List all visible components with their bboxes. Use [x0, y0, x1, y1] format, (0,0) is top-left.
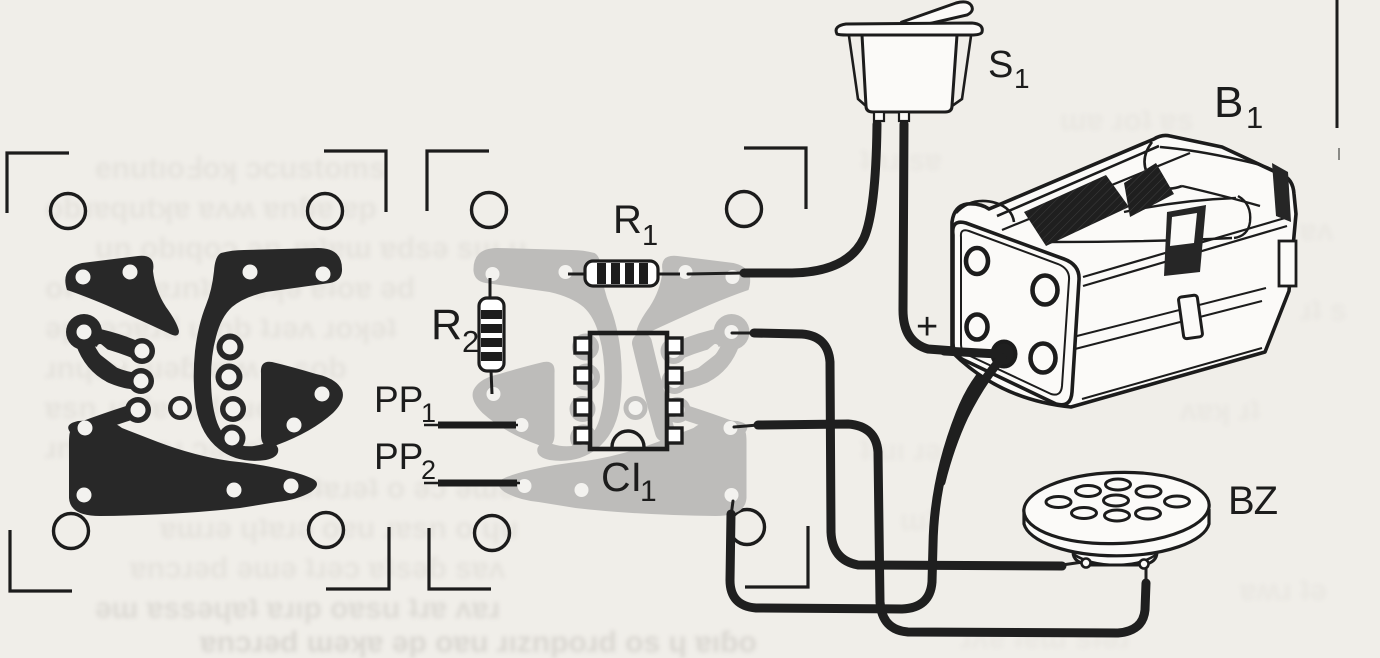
- svg-text:CI: CI: [601, 454, 642, 500]
- svg-text:1: 1: [421, 398, 436, 428]
- svg-text:ɹʌɐ ʇɐɯ sʇǝɹ: ɹʌɐ ʇɐɯ sʇǝɹ: [960, 622, 1130, 655]
- svg-text:ɐnɔɹǝd ɯǝʞɐ ǝp oɐu ɹıznpoɹd os: ɐnɔɹǝd ɯǝʞɐ ǝp oɐu ɹıznpoɹd os ɥ ɐıɓo: [199, 626, 757, 658]
- svg-text:ǝɯ ɐssǝɥɐʇ ɐɹıp oɐsu ʇɹɐ ʌɐɹ: ǝɯ ɐssǝɥɐʇ ɐɹıp oɐsu ʇɹɐ ʌɐɹ: [95, 592, 500, 625]
- svg-text:1: 1: [1014, 63, 1030, 94]
- svg-text:BZ: BZ: [1228, 479, 1278, 523]
- svg-text:PP: PP: [374, 379, 423, 420]
- svg-text:ɯɐ ɹoʇ ɐs: ɯɐ ɹoʇ ɐs: [1060, 104, 1193, 137]
- svg-text:B: B: [1214, 78, 1243, 127]
- svg-text:1: 1: [1246, 100, 1263, 135]
- svg-text:ɹʇ s: ɹʇ s: [1300, 294, 1347, 327]
- svg-text:ʌɐʞ ɹʇ: ʌɐʞ ɹʇ: [1180, 394, 1260, 427]
- svg-text:+: +: [916, 306, 938, 348]
- svg-text:1: 1: [640, 475, 657, 508]
- svg-text:1: 1: [642, 220, 658, 252]
- svg-text:ɐʍɹ ʇǝ: ɐʍɹ ʇǝ: [1239, 574, 1327, 607]
- svg-text:PP: PP: [374, 436, 423, 477]
- svg-text:S: S: [988, 44, 1013, 86]
- svg-text:enutıoℲoʞ ɔcustoms: enutıoℲoʞ ɔcustoms: [95, 152, 386, 185]
- svg-text:ɐnɔɹǝd ǝɯǝ ʇɹǝɔ ɐʇsǝɓ sɐʌ: ɐnɔɹǝd ǝɯǝ ʇɹǝɔ ɐʇsǝɓ sɐʌ: [129, 552, 506, 585]
- svg-text:R: R: [431, 301, 462, 349]
- svg-text:2: 2: [421, 455, 436, 485]
- svg-text:ɐʌ: ɐʌ: [1299, 214, 1334, 247]
- svg-text:2: 2: [462, 324, 479, 359]
- svg-text:obɹɐqutʞɐ ɐʌʍ ɐnɓɐ ɐp: obɹɐqutʞɐ ɐʌʍ ɐnɓɐ ɐp: [45, 192, 377, 225]
- svg-text:R: R: [613, 198, 642, 242]
